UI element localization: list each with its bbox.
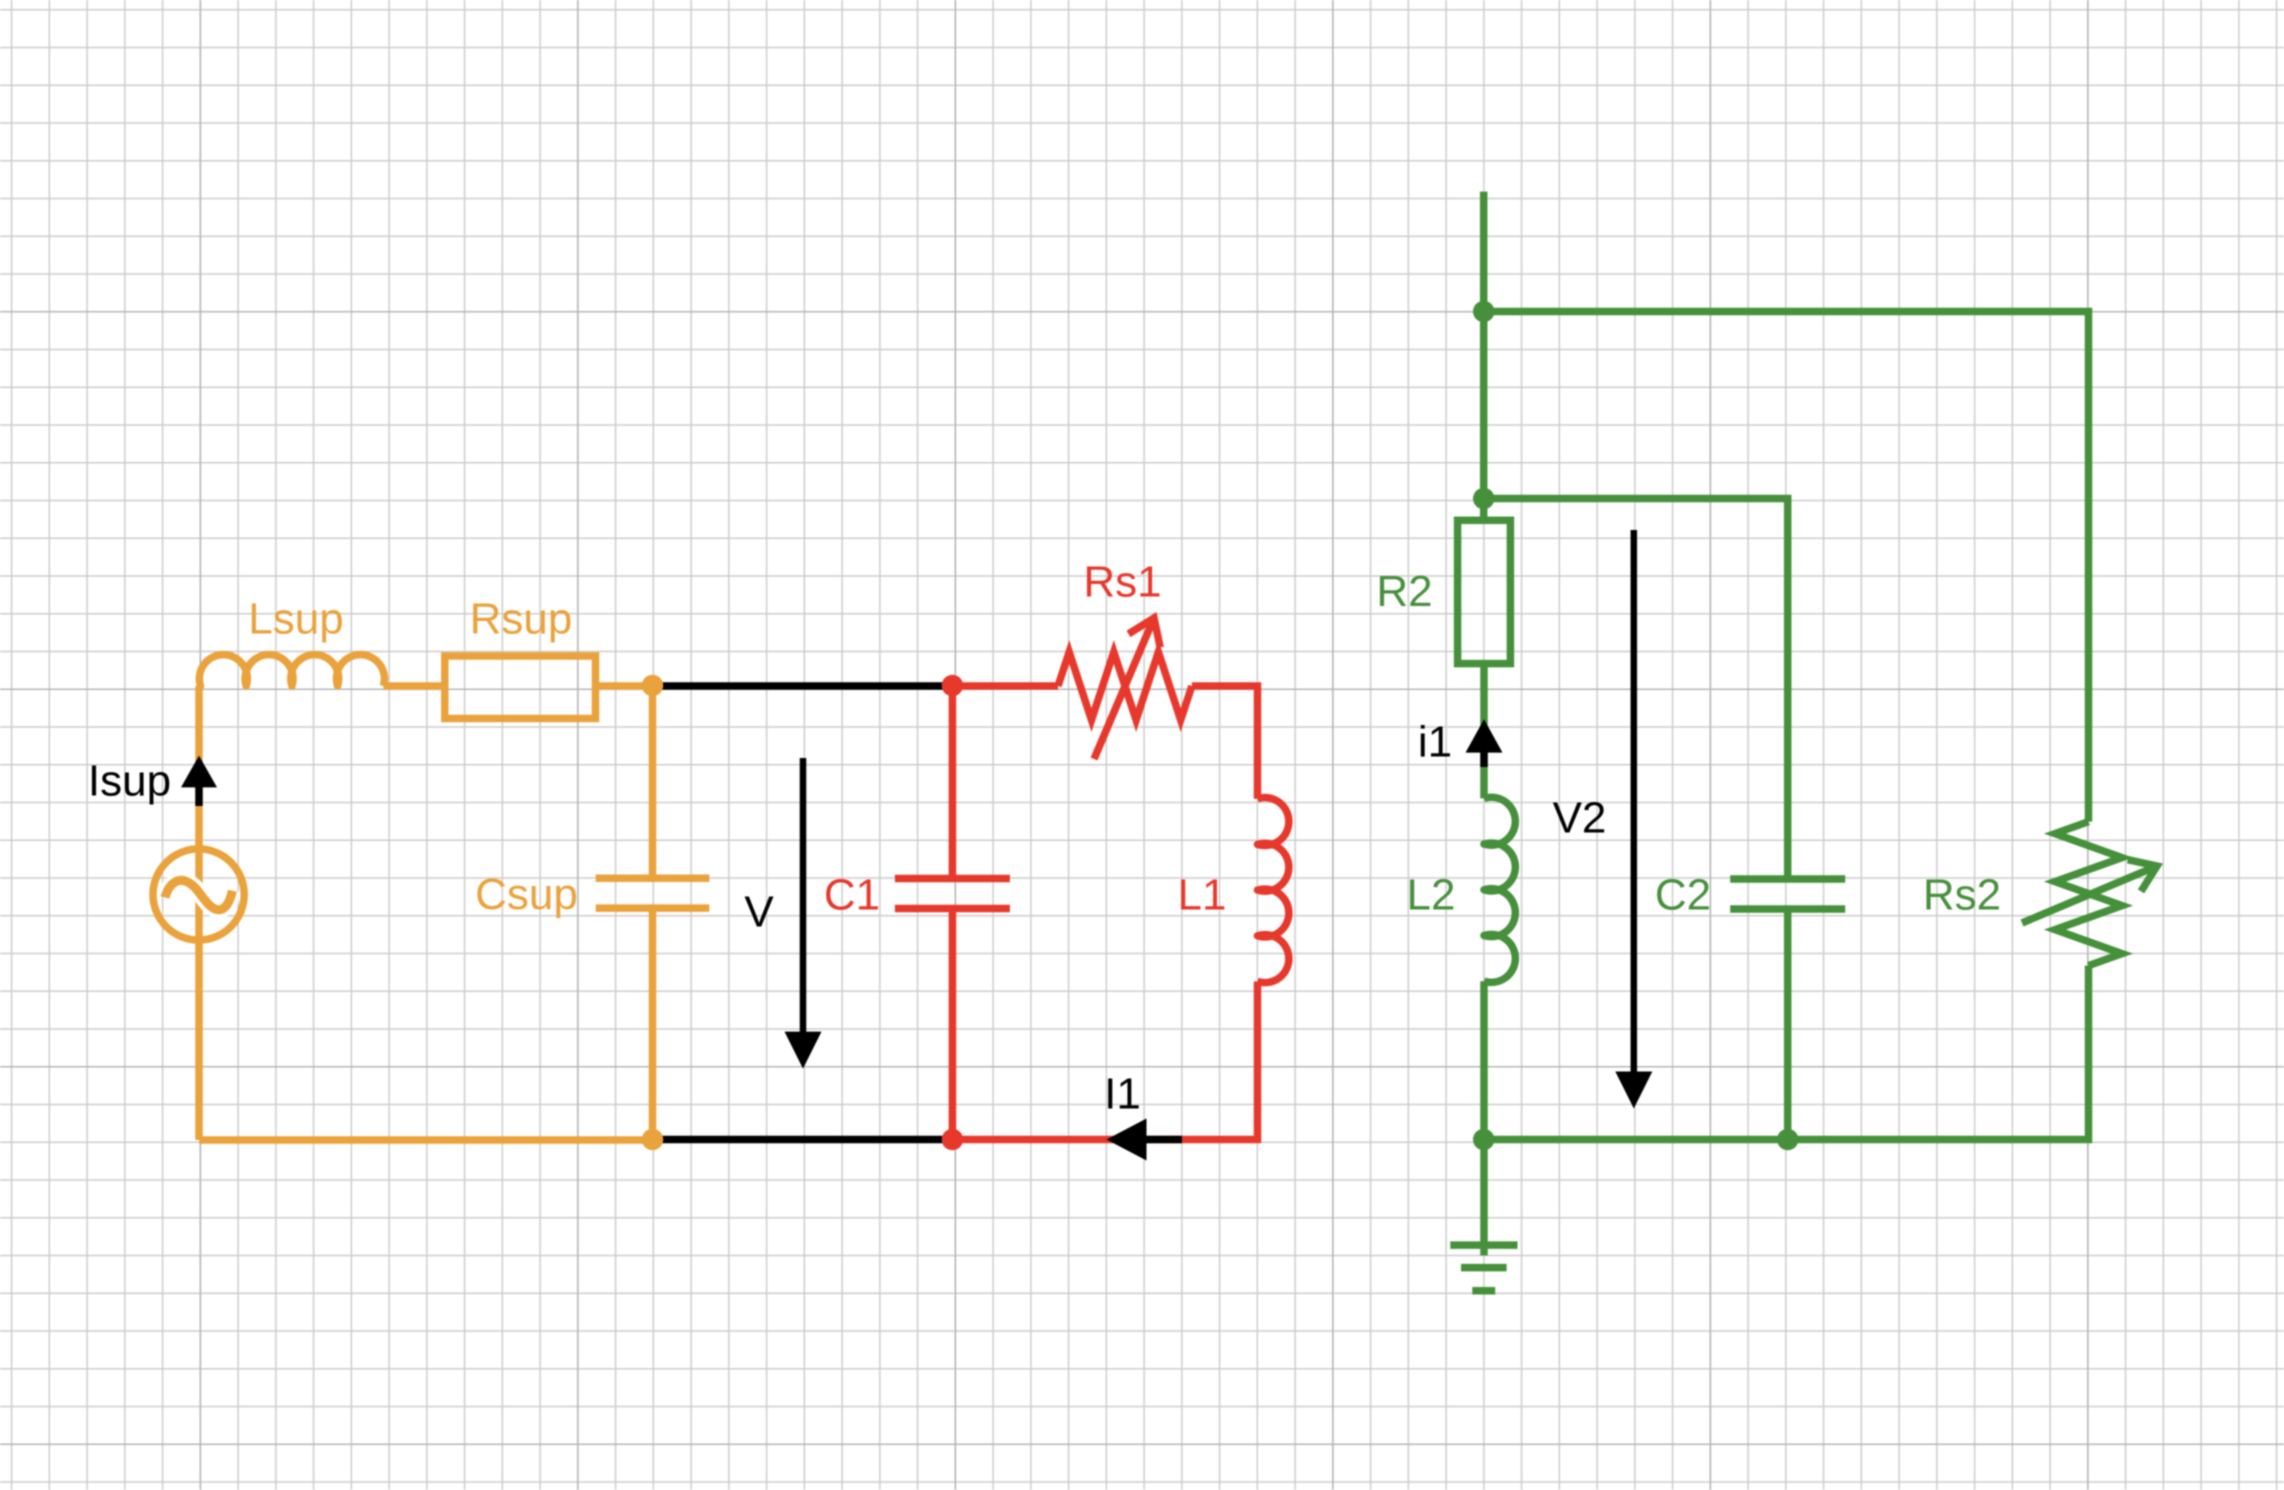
wire bottom orange (199, 1136, 653, 1144)
wire node E to top-right corner (1484, 312, 2089, 822)
wire node A to node C (top black) (653, 682, 953, 690)
arrow I1 (1145, 1136, 1182, 1144)
svg-text:V: V (744, 888, 774, 937)
wire L1 to bottom (952, 982, 1257, 1140)
svg-text:V2: V2 (1553, 794, 1607, 843)
wire Csup branch lower (649, 908, 657, 1140)
capacitor C1 plates (895, 879, 1010, 909)
wire C2 branch lower (1784, 909, 1792, 1140)
svg-text:Rs1: Rs1 (1083, 558, 1161, 607)
node G dot (1473, 1129, 1494, 1150)
inductor Lsup (199, 655, 384, 686)
wire node E to node F (1480, 312, 1488, 499)
wire Csup branch upper (649, 686, 657, 878)
svg-text:L1: L1 (1178, 870, 1227, 919)
capacitor Csup plates (596, 878, 710, 908)
ground stem (1480, 1140, 1488, 1256)
wire C1 branch upper (949, 686, 957, 879)
svg-text:Rs2: Rs2 (1923, 870, 2001, 919)
arrow Isup (195, 785, 203, 806)
wire node F to R2 (1480, 499, 1488, 521)
resistor Rs1 zigzag (1058, 652, 1192, 720)
node F dot (1473, 488, 1494, 509)
wire L2 to node G (1480, 981, 1488, 1139)
capacitor C2 plates (1730, 879, 1845, 909)
node B dot (642, 1129, 663, 1150)
wire node B to node D (bottom black) (653, 1136, 953, 1144)
node E dot (1473, 301, 1494, 322)
Rs2 variable arrow (2022, 866, 2157, 923)
ground bar 2 (1461, 1264, 1507, 1272)
inductor L1 (1258, 798, 1289, 983)
node H dot (1777, 1129, 1798, 1150)
arrow V2 (1631, 530, 1638, 1072)
svg-text:I1: I1 (1104, 1070, 1141, 1119)
resistor R2 box (1458, 520, 1511, 663)
ground bar 3 (1472, 1287, 1495, 1295)
wire node C to Rs1 (952, 682, 1058, 690)
inductor L2 (1484, 797, 1515, 982)
svg-text:Lsup: Lsup (248, 595, 343, 644)
svg-text:C2: C2 (1655, 870, 1711, 919)
ground bar 1 (1450, 1241, 1517, 1249)
resistor Rs2 zigzag (2055, 822, 2122, 966)
wire Rs1 to corner (1192, 686, 1258, 799)
svg-text:Isup: Isup (88, 757, 171, 806)
wire Rsup to node A (596, 682, 653, 690)
node C dot (942, 675, 963, 696)
wire R2 to L2 (1480, 664, 1488, 799)
wire Rs2 to bottom corner (1484, 966, 2089, 1140)
resistor Rsup box (445, 656, 596, 719)
wire Lsup to Rsup (383, 682, 444, 690)
wire left vertical (source branch) (195, 686, 203, 1140)
AC source sine (165, 880, 232, 909)
AC source V1 circle (153, 849, 244, 940)
svg-text:C1: C1 (824, 870, 880, 919)
node D dot (942, 1129, 963, 1150)
svg-text:Rsup: Rsup (470, 595, 573, 644)
svg-text:R2: R2 (1376, 567, 1432, 616)
wire C1 branch lower (949, 909, 957, 1140)
AC source sine casing (165, 880, 232, 909)
arrow V (800, 758, 807, 1033)
svg-text:i1: i1 (1418, 718, 1452, 767)
node A dot (642, 675, 663, 696)
svg-text:Csup: Csup (475, 870, 578, 919)
wire node F to C2 corner (1484, 499, 1788, 880)
arrow i1 (1480, 751, 1488, 767)
wire top stub (1480, 192, 1488, 312)
svg-text:L2: L2 (1407, 870, 1456, 919)
Rs1 variable arrow (1094, 618, 1154, 759)
